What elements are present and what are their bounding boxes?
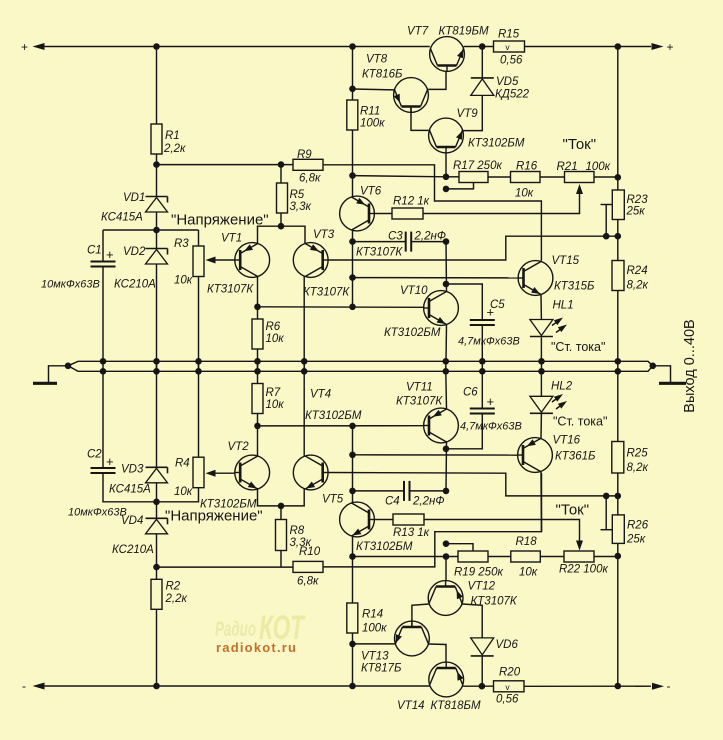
wire R3 to R4 column [198,277,200,458]
wiper R17 return [446,183,474,189]
node 0V rails x=198.5 [195,358,202,375]
zener VD1 КС415А [101,192,168,224]
resistor R7 10к [252,384,284,426]
wire R9 to corner path [323,165,541,261]
svg-text:R26: R26 [627,520,649,532]
wire VT8 emitter [353,88,395,91]
node 0V rails x=445.8 [443,358,450,375]
wire VD5 cathode to +rail [481,47,483,78]
potentiometer R3 10к [174,238,204,287]
wire VT12 emitter to VD6 [462,604,482,638]
svg-text:10к: 10к [174,486,193,498]
svg-text:"Напряжение": "Напряжение" [171,212,269,229]
svg-text:100к: 100к [362,623,387,635]
svg-text:VT10: VT10 [400,285,428,297]
wire +rail to R23 node [617,47,619,178]
resistor R26 25к [612,496,648,546]
svg-text:+: + [487,394,495,409]
node 0V rails x=304.2 [301,358,308,375]
svg-text:КТ3107К: КТ3107К [303,287,350,299]
wire collector row to VT11 base [258,425,424,427]
capacitor C3 2,2нФ [388,231,446,252]
node R23/R24 [615,233,622,240]
svg-text:R11: R11 [360,106,380,118]
wire VT2-VT4 emitter bus [258,489,305,506]
capacitor C6 4,7мкФх63В [460,387,522,433]
resistor R10 6,8к [293,546,323,588]
transistor VT11 КТ3107К [396,382,458,443]
resistor R18 10к [511,536,541,579]
node VT6 coll/VT15 base [349,274,356,281]
wire C5 branch [446,284,482,320]
svg-text:C6: C6 [463,387,478,399]
transistor VT13 КТ817Б [361,621,429,674]
transistor VT14 КТ818БМ [397,662,481,712]
node R14/VT13 emitter [349,641,356,648]
node +rail/VD5/R15 [479,43,486,50]
capacitor C4 2,2нФ [385,481,444,508]
label Выход 0...40В [682,319,698,412]
svg-text:R17 250к: R17 250к [453,160,502,172]
wire VT6 emitter [352,176,354,197]
transistor VT5 КТ3102БМ [322,494,413,554]
wire R8 to R10 line [280,551,282,568]
svg-text:КТ3102БМ: КТ3102БМ [468,138,525,150]
node emitters/R8 [278,503,285,510]
transistor VT10 КТ3102БМ [384,285,458,339]
wire R2-R8 node line [157,566,294,568]
svg-text:radiokot.ru: radiokot.ru [216,640,296,655]
wiper arrow R22 [576,541,583,551]
wire VT7 emitter to R15 [464,46,494,48]
zener VD4 КС210А [112,502,168,556]
svg-text:КТ3107К: КТ3107К [356,247,403,259]
transistor VT16 КТ361Б [518,435,596,473]
svg-text:VT9: VT9 [457,108,479,120]
wire +rail left segment [40,46,430,48]
svg-text:HL1: HL1 [553,300,574,312]
svg-text:R12 1к: R12 1к [393,196,430,208]
node VD4/R2/R10 line [153,564,160,571]
wire R12 to R21 wiper [423,187,580,214]
diode VD5 КД522 [471,76,530,101]
node 0V rails x=156.5 [153,358,160,375]
svg-text:КД522: КД522 [495,89,530,101]
node rail/R11 column [349,43,356,50]
potentiometer R22 100к [559,551,608,576]
wire R22 right [594,556,618,558]
wire VT16 base line [353,454,518,456]
wire VT12 base up [445,557,447,582]
wire R21 right [594,176,618,178]
svg-text:R14: R14 [362,609,383,621]
label Напряжение upper [171,212,269,229]
wire C1 top lead [102,230,104,261]
svg-text:R24: R24 [627,265,648,277]
wire R19 row left [353,556,459,558]
resistor R1 2,2к [151,124,186,155]
svg-text:VT13: VT13 [361,651,389,663]
wire VT1-VT3 emitter bus [258,226,306,243]
zener VD3 КС415А [109,464,168,496]
wire R6 to 0V rail [257,349,259,371]
wire VD2 to 0V rail [156,264,158,371]
svg-text:VT15: VT15 [552,255,580,267]
svg-text:+: + [106,454,114,469]
svg-text:R19 250к: R19 250к [454,567,503,579]
wire C3 right [411,241,446,243]
svg-text:КТ819БМ: КТ819БМ [439,26,489,38]
svg-text:25к: 25к [626,206,646,218]
node R21/R23 feed [615,174,622,181]
LED HL2 [530,381,573,414]
svg-text:Выход 0...40В: Выход 0...40В [682,319,698,412]
svg-text:R1: R1 [165,130,180,142]
wire R17-R16 [488,176,511,178]
wire C4 right [410,490,447,492]
wire R14 node to -rail [352,644,354,686]
wire VT12 collector to VT13 base [412,604,429,628]
svg-text:R9: R9 [297,149,312,161]
node -rail R14 column [349,683,356,690]
wire HL1 to 0V rail [540,338,542,362]
svg-text:R18: R18 [516,536,538,548]
svg-text:10к: 10к [266,333,285,345]
capacitor C2 10мкФх63В [68,449,127,519]
resistor R9 6,8к [293,149,323,185]
svg-text:VT8: VT8 [366,54,388,66]
transistor VT2 КТ3102БМ [200,441,270,511]
wire VT9 base down [445,153,447,177]
svg-text:КТ3102БМ: КТ3102БМ [305,410,362,422]
node emitters/R5 [278,223,285,230]
svg-text:R10: R10 [299,546,321,558]
wire VD6 to -rail [481,657,483,687]
wire VT9 emitter to VD5 [463,96,483,131]
wire C2 bottom [103,473,157,502]
svg-text:КТ3107К: КТ3107К [396,396,443,408]
svg-text:Радио: Радио [215,618,256,641]
svg-text:8,2к: 8,2к [627,280,649,292]
svg-text:КТ361Б: КТ361Б [555,451,596,463]
svg-text:6,8к: 6,8к [297,576,319,588]
wiper R26 [601,496,613,530]
transistor VT4 КТ3102БМ [293,389,362,490]
resistor R15 0,56 [494,29,525,67]
resistor R6 10к [252,307,284,349]
wire VT4 base feedback [328,473,618,496]
node 0V right join [650,363,657,370]
transistor VT3 КТ3107К [293,229,350,299]
wire C6 to 0V rail [481,371,483,408]
transistor VT7 КТ819БМ [407,26,489,72]
wire VT11 collector [445,442,448,491]
svg-text:R7: R7 [266,387,281,399]
svg-text:+: + [21,40,28,54]
wire node to R3 [198,230,200,246]
svg-text:VT11: VT11 [406,382,433,394]
svg-text:VD1: VD1 [123,192,145,204]
svg-text:"Ст. тока": "Ст. тока" [553,415,607,429]
wire C5 to 0V rail [481,325,483,361]
wire R2 to -rail [156,609,158,686]
wire VT13 emitter [353,643,396,645]
diode VD6 [471,638,519,656]
svg-text:КС415А: КС415А [101,212,143,224]
wire VT6 collector [352,231,354,307]
svg-text:КС415А: КС415А [109,484,151,496]
wire VT3 base feedback [328,236,618,260]
svg-text:КТ817Б: КТ817Б [361,663,402,675]
wire C4 left [353,490,405,492]
svg-text:VD6: VD6 [496,639,519,651]
node rail/R1 [153,43,160,50]
wiper arrow R4 to VT2 base [206,470,235,477]
svg-text:КТ3107К: КТ3107К [207,284,254,296]
node R1/R9 line [153,161,160,168]
svg-text:-: - [667,679,671,693]
svg-text:VD2: VD2 [123,246,146,258]
wire VT16 emitter to HL2 [540,413,542,438]
node VD chain/C1/R3 [153,227,160,234]
svg-text:100к: 100к [360,118,385,130]
capacitor C5 4,7мкФх63В [458,299,520,348]
resistor R2 2,2к [151,567,187,609]
svg-text:VD4: VD4 [121,515,143,527]
wire VT14 emitter to R20 [463,685,494,687]
transistor VT8 КТ816Б [362,54,428,113]
resistor R23 25к [612,177,648,219]
wire VT13 collector to VT14 base [429,644,447,662]
wire VT4 collector to rails [303,371,305,456]
wire rail to R11 node [352,47,354,89]
wire R17 left lead [446,176,459,178]
potentiometer R4 10к [174,457,204,498]
transistor VT15 КТ315Б [518,255,595,295]
node VT5 coll/C4 [349,488,356,495]
wire R20 to right end [524,685,651,687]
wire VT3 collector to rails [303,277,305,372]
wire R23 node to -rail [617,556,619,686]
svg-text:C3: C3 [388,231,403,243]
svg-text:8,2к: 8,2к [627,462,649,474]
node C3/VT9-base line [443,238,450,245]
wire VT8 base to VT9 collector [411,107,429,131]
svg-text:VD5: VD5 [496,76,519,88]
node R11/VT6/R17-row [349,172,356,179]
node 0V rails x=482.3 [479,358,486,375]
resistor R24 8,2к [612,236,648,291]
svg-text:10к: 10к [515,188,534,200]
transistor VT1 КТ3107К [207,233,270,296]
transistor VT9 КТ3102БМ [429,108,525,153]
wire VD4 to R2 node [156,534,158,567]
node VT2 coll/R7 [254,423,261,430]
label Напряжение lower [165,508,263,525]
svg-text:3,3к: 3,3к [290,201,312,213]
node 0V left join [65,363,72,370]
node R25/R26 [615,493,622,500]
wire rail to R1 [156,47,158,125]
svg-text:КТ3102БМ: КТ3102БМ [200,499,257,511]
node C4/VT12-base line [443,488,450,495]
svg-text:R23: R23 [627,194,649,206]
svg-text:VT6: VT6 [360,186,382,198]
svg-text:HL2: HL2 [551,381,573,393]
wire 0V to C2 [102,371,104,468]
wire VD3 to node [156,483,158,502]
node VD3/VD4/C2/R4 [153,499,160,506]
svg-text:"Ток": "Ток" [563,136,597,153]
potentiometer R19 250к [454,551,503,579]
node VT1 coll/R6 [254,304,261,311]
svg-text:R8: R8 [290,525,305,537]
label Ток lower [556,502,590,519]
wire R10 to corner path [323,473,542,567]
svg-text:4,7мкФх63В: 4,7мкФх63В [460,421,522,433]
wire C1-R3 link [103,229,199,231]
svg-text:VT16: VT16 [553,435,581,447]
node VT9 base/R17 row [443,174,450,181]
node -rail right [615,683,622,690]
wire VT5 collector [352,426,354,504]
svg-text:R22 100к: R22 100к [559,564,608,576]
svg-text:C4: C4 [385,496,400,508]
node 0V rails x=541.5 [538,358,545,375]
wire R19-R18 [488,556,511,558]
wire collector row to VT10 base [258,306,424,309]
node R23 wiper junction [603,233,610,240]
svg-text:R15: R15 [498,29,520,41]
resistor R14 100к [347,557,387,635]
svg-text:100к: 100к [586,161,611,173]
wire VT10 emitter to 0V [445,325,448,362]
wire R24 to 0V rail [617,291,619,362]
svg-text:КТ818БМ: КТ818БМ [431,700,481,712]
zener VD2 КС210А [114,230,168,291]
node -rail R2 [153,683,160,690]
svg-text:2,2к: 2,2к [163,143,186,155]
svg-text:2,2к: 2,2к [165,593,188,605]
wire 0V rail to HL2 [540,371,542,396]
wire VT5 emitter [352,536,354,557]
node VT5 coll/collector row [349,423,356,430]
wire VT5 base to R13 [374,519,393,521]
node R11/VT8 emitter [349,86,356,93]
ground symbol left [33,366,68,384]
svg-text:10к: 10к [266,399,285,411]
svg-text:VT3: VT3 [313,229,335,241]
svg-text:VT4: VT4 [310,389,331,401]
node -rail/VD6/R20 [479,683,486,690]
svg-text:R13 1к: R13 1к [393,527,430,539]
wire VT15 emitter to HL1 [540,295,542,320]
svg-text:VT5: VT5 [322,494,344,506]
svg-text:КС210А: КС210А [112,544,154,556]
svg-text:R4: R4 [175,458,190,470]
svg-text:VT12: VT12 [468,581,496,593]
svg-text:C2: C2 [87,449,102,461]
svg-text:VD3: VD3 [121,464,144,476]
svg-text:КТ3102БМ: КТ3102БМ [384,327,441,339]
wire R13 to R22 wiper [424,520,580,547]
wire VT16 collector [540,472,543,532]
resistor R8 3,3к [276,506,312,551]
label Ст. тока lower [553,415,607,429]
svg-text:6,8к: 6,8к [299,173,321,185]
svg-text:0,56: 0,56 [500,55,523,67]
svg-text:КТ3102БМ: КТ3102БМ [356,541,413,553]
wire R17 row left [353,176,447,177]
wire 0V lower rail [68,366,653,372]
wire VT6 base to R12 [374,213,392,215]
svg-text:R21: R21 [557,161,578,173]
node R22/R26 feed [615,553,622,560]
resistor R5 3,3к [277,165,312,213]
svg-text:+: + [487,305,495,320]
wire R14 to VT13 node [352,633,354,644]
svg-text:0,56: 0,56 [496,694,519,706]
resistor R16 10к [511,161,541,200]
arrow - right terminal [652,679,671,693]
transistor VT6 КТ3107К [340,186,404,259]
wire VT10 collector [445,242,448,292]
node R19 wiper return [443,540,450,547]
svg-text:R5: R5 [290,189,305,201]
wire VD1 to C1 node [156,212,158,230]
ground symbol right [653,366,686,384]
svg-text:R20: R20 [499,667,521,679]
svg-text:КТ816Б: КТ816Б [362,69,403,81]
node VT5/R14/R19 row [349,553,356,560]
resistor R12 1к [392,196,430,220]
wire R16-R21 [540,176,565,178]
wire VT2 collector [257,426,259,456]
transistor VT12 КТ3107К [428,581,518,616]
arrow + left terminal [21,40,45,54]
wire R5 to emitters node [280,213,282,226]
resistor R20 0,56 [494,667,525,706]
wire VT15 base line [353,277,518,279]
wire VT7 base to VT8 collector [428,71,446,89]
node VT5 coll/VT16 base [349,452,356,459]
svg-text:10к: 10к [519,567,538,579]
resistor R11 100к [347,89,385,130]
wire C1 to 0V rail [102,267,104,362]
label Ст. тока upper [551,340,605,354]
svg-text:4,7мкФх63В: 4,7мкФх63В [458,336,520,348]
svg-text:VT2: VT2 [228,441,250,453]
node VT11 coll/C6 [443,446,450,453]
node R5 top [278,161,285,168]
wire C6 branch [446,414,482,449]
node 0V rails x=617.8 [615,358,622,375]
wire R23 bottom [617,220,619,237]
svg-text:2,2нФ: 2,2нФ [412,496,444,508]
node +rail right [615,43,622,50]
svg-text:КТ315Б: КТ315Б [554,281,595,293]
wire 0V to VD3 [156,371,158,467]
svg-text:"Ст. тока": "Ст. тока" [551,340,605,354]
svg-text:VT14: VT14 [397,700,425,712]
wiper R19 return [446,544,473,552]
node VT12 base/R19 row [443,553,450,560]
svg-text:2,2нФ: 2,2нФ [414,231,446,243]
wire R1-R5 node line [157,164,294,166]
resistor R25 8,2к [612,371,649,474]
wiper R23 [601,205,613,237]
node VT6 coll/C3 [349,238,356,245]
